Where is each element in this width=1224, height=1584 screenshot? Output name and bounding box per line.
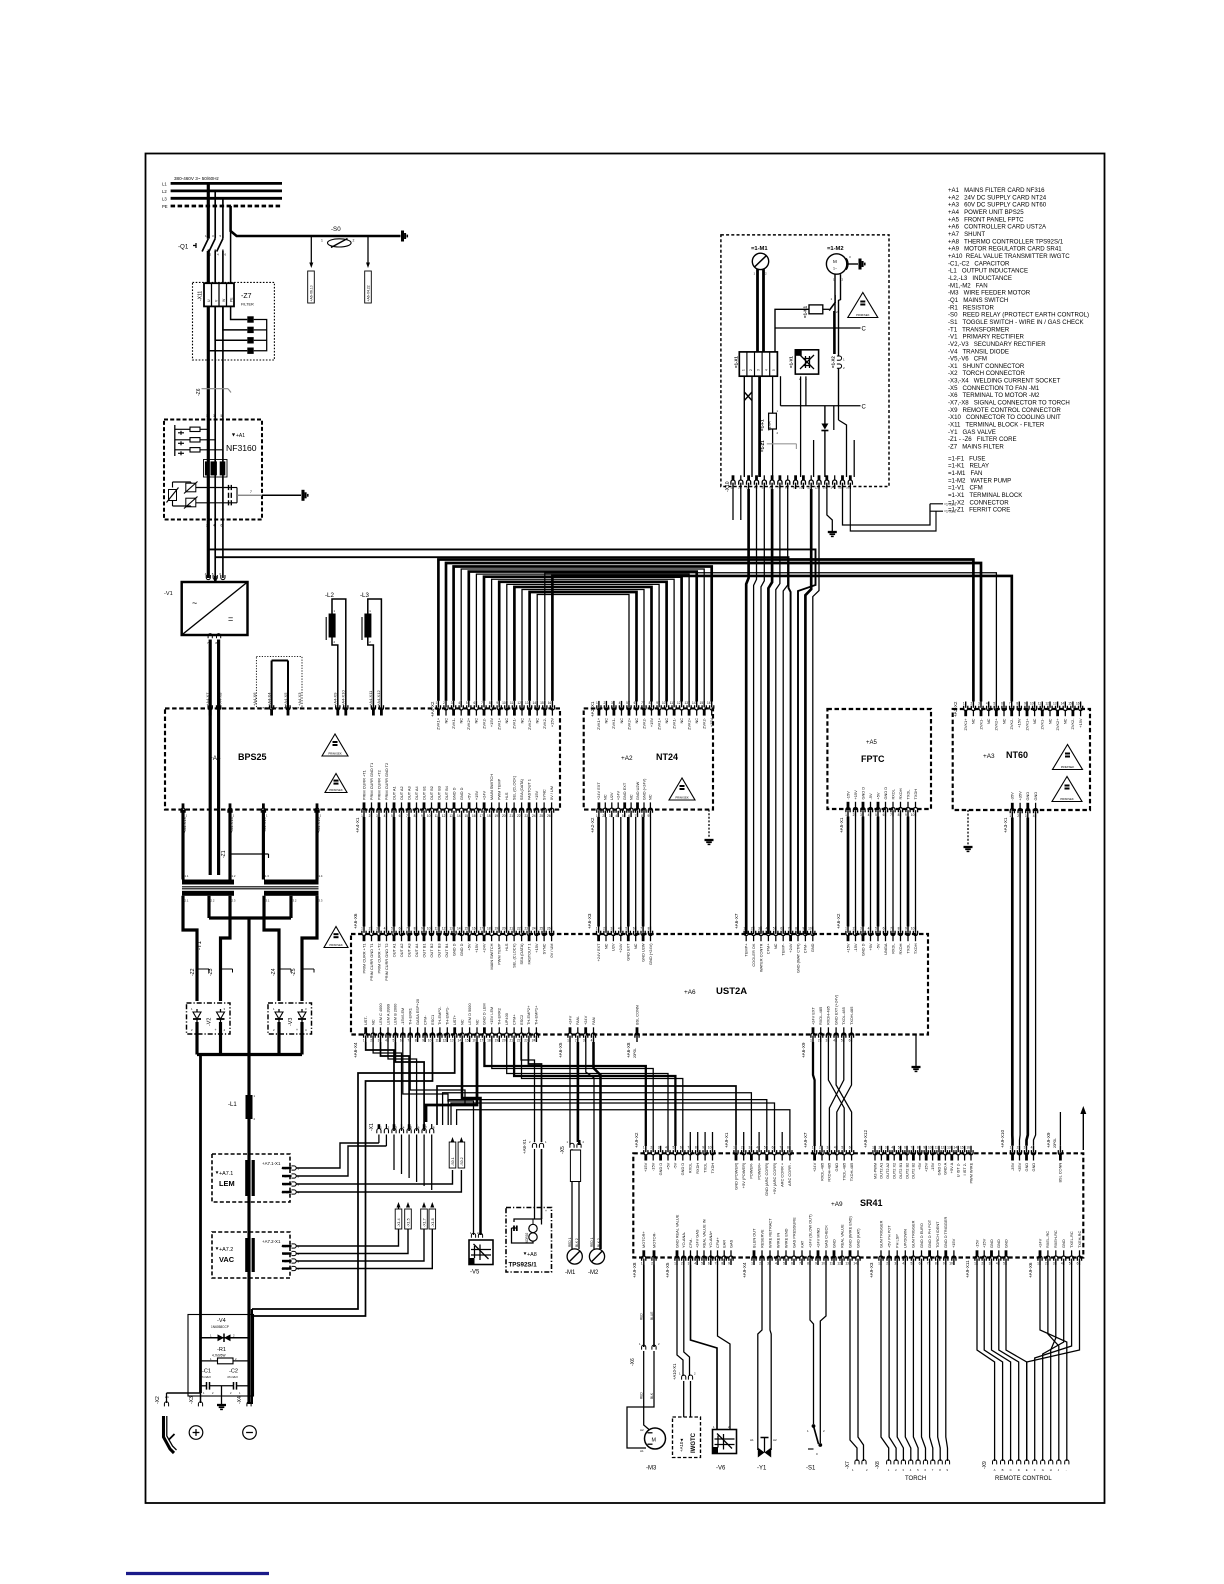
- svg-text:ZVK1+: ZVK1+: [963, 718, 968, 731]
- svg-text:+A4: +A4: [209, 755, 221, 762]
- svg-text:6: 6: [904, 1146, 906, 1150]
- svg-text:16: 16: [1076, 701, 1080, 705]
- resistor network in NF3160: [174, 425, 176, 456]
- svg-text:9: 9: [923, 1146, 925, 1150]
- svg-text:2: 2: [681, 1262, 683, 1266]
- svg-text:12: 12: [941, 1146, 945, 1150]
- wire L2 drop: [214, 191, 216, 239]
- svg-text:6: 6: [1077, 1262, 1079, 1266]
- svg-text:ESC2: ESC2: [519, 1015, 524, 1025]
- svg-text:ZVK2-: ZVK2-: [641, 717, 646, 729]
- svg-text:2: 2: [981, 1262, 983, 1266]
- svg-text:SYNC: SYNC: [541, 789, 546, 800]
- svg-text:+24V: +24V: [583, 1015, 588, 1025]
- svg-text:OUT A2: OUT A2: [399, 786, 404, 800]
- svg-text:7: 7: [481, 701, 483, 705]
- svg-text:=1-K1 RELAY: =1-K1 RELAY: [948, 463, 989, 470]
- svg-text:-S0: -S0: [331, 226, 341, 233]
- wires SR41 X5 to A10-X1: [677, 1265, 683, 1376]
- svg-text:5: 5: [875, 926, 877, 930]
- wires below X1 row: [378, 1135, 380, 1144]
- wire L3 drop: [222, 198, 224, 238]
- svg-text:20: 20: [502, 926, 506, 930]
- svg-text:+A8: +A8: [527, 1252, 537, 1258]
- svg-text:10: 10: [911, 926, 915, 930]
- svg-text:1: 1: [878, 1262, 880, 1266]
- svg-text:GND D PH POT: GND D PH POT: [927, 1219, 932, 1248]
- warning triangle transformer: [324, 927, 348, 948]
- svg-text:ZVK2+: ZVK2+: [1055, 718, 1060, 731]
- svg-text:-Z4: -Z4: [271, 968, 277, 976]
- svg-text:+A4-X4: +A4-X4: [266, 692, 271, 706]
- wires SR41 X1 up to shunt area: [437, 1086, 736, 1146]
- svg-text:+A9-X6: +A9-X6: [1028, 1262, 1033, 1278]
- svg-text:OUT B1: OUT B1: [421, 944, 426, 958]
- svg-text:7: 7: [640, 926, 642, 930]
- svg-text:PRIM CURR GND T1: PRIM CURR GND T1: [369, 763, 374, 800]
- reference label -X1.4: [395, 1209, 402, 1229]
- svg-text:+24V: +24V: [788, 943, 793, 953]
- svg-text:5: 5: [841, 1146, 843, 1150]
- svg-text:4: 4: [665, 1146, 667, 1150]
- svg-text:GND (+24V): GND (+24V): [641, 778, 646, 800]
- svg-text:5: 5: [841, 1039, 843, 1043]
- svg-text:+A6-X6.10: +A6-X6.10: [310, 285, 314, 301]
- svg-text:+35V: +35V: [1017, 791, 1022, 801]
- svg-text:-T1 TRANSFORMER: -T1 TRANSFORMER: [948, 326, 1010, 333]
- svg-text:=1-M2: =1-M2: [827, 246, 844, 252]
- svg-text:3: 3: [611, 926, 613, 930]
- svg-text:6: 6: [474, 701, 476, 705]
- svg-text:-X9 REMOTE CONTROL CONNECTOR: -X9 REMOTE CONTROL CONNECTOR: [948, 407, 1061, 414]
- svg-text:POWER+: POWER+: [756, 1162, 761, 1180]
- svg-text:+5V: +5V: [466, 793, 471, 800]
- svg-text:9: 9: [496, 701, 498, 705]
- svg-text:12: 12: [517, 701, 521, 705]
- svg-text:16: 16: [966, 1146, 970, 1150]
- svg-text:5: 5: [764, 1146, 766, 1150]
- svg-text:21: 21: [509, 1039, 513, 1043]
- svg-text:-Y1: -Y1: [757, 1466, 767, 1472]
- svg-text:+A5: +A5: [866, 740, 878, 746]
- svg-text:14: 14: [830, 486, 834, 490]
- svg-text:OUT B2: OUT B2: [429, 786, 434, 800]
- ground in cooling unit: [824, 406, 826, 426]
- svg-text:OUT A2: OUT A2: [399, 944, 404, 958]
- wire bundle BPS25-X1 to UST2A-X6: [363, 817, 366, 927]
- svg-text:0V / UM: 0V / UM: [549, 786, 554, 800]
- svg-text:+15V: +15V: [643, 1162, 648, 1172]
- svg-text:TH-EMP1-: TH-EMP1-: [445, 1006, 450, 1025]
- svg-text:4: 4: [756, 1146, 758, 1150]
- svg-text:I IST 2-: I IST 2-: [962, 1162, 967, 1175]
- svg-text:+A6-X3: +A6-X3: [587, 913, 592, 929]
- svg-text:4: 4: [1033, 814, 1035, 818]
- ground below NT24: [708, 810, 710, 838]
- svg-text:+15V: +15V: [924, 1162, 929, 1172]
- svg-text:1: 1: [596, 701, 598, 705]
- svg-text:TH-ERR2: TH-ERR2: [497, 1008, 502, 1025]
- cooler C wire 1: [775, 327, 861, 329]
- svg-text:BLUE: BLUE: [650, 1312, 654, 1320]
- svg-text:13: 13: [1053, 701, 1057, 705]
- svg-text:GND EXT: GND EXT: [622, 782, 627, 800]
- svg-text:15: 15: [960, 1146, 964, 1150]
- svg-text:19: 19: [494, 926, 498, 930]
- svg-text:HLS: HLS: [504, 943, 509, 951]
- svg-text:5: 5: [911, 1262, 913, 1266]
- svg-text:+A6-X8: +A6-X8: [626, 1042, 631, 1058]
- svg-text:GND (+24V): GND (+24V): [648, 943, 653, 965]
- svg-text:9: 9: [648, 814, 650, 818]
- svg-text:ZVK1-: ZVK1-: [671, 717, 676, 729]
- svg-text:3: 3: [1053, 1262, 1055, 1266]
- svg-text:EAR: EAR: [722, 1240, 727, 1248]
- svg-text:BLK: BLK: [650, 1392, 654, 1399]
- svg-text:RXDH-485: RXDH-485: [826, 1006, 831, 1025]
- svg-text:7: 7: [1009, 701, 1011, 705]
- svg-text:22: 22: [517, 1039, 521, 1043]
- svg-text:LEM B 2000: LEM B 2000: [393, 1003, 398, 1025]
- svg-text:-S0.1: -S0.1: [451, 1157, 455, 1166]
- svg-text:-Z7 MAINS FILTER: -Z7 MAINS FILTER: [948, 444, 1004, 451]
- wires X6 to motor M3: [643, 1351, 645, 1385]
- svg-text:PRIM/SEK: PRIM/SEK: [329, 943, 343, 947]
- svg-text:RED: RED: [640, 1392, 644, 1399]
- gas valve Y1: [758, 1448, 765, 1458]
- svg-text:9: 9: [803, 926, 805, 930]
- ferrite cores in Z7: [247, 316, 253, 322]
- svg-text:1: 1: [206, 414, 208, 418]
- svg-text:+5V: +5V: [665, 1162, 670, 1169]
- svg-text:1: 1: [733, 1146, 735, 1150]
- svg-text:15: 15: [464, 814, 468, 818]
- svg-text:8: 8: [648, 926, 650, 930]
- VAC wires to X1 labels: [296, 1229, 399, 1246]
- flow meter V5: [469, 1240, 493, 1265]
- svg-text:+A4-X2: +A4-X2: [430, 701, 435, 717]
- svg-text:14: 14: [533, 701, 537, 705]
- svg-text:+A9-X7: +A9-X7: [803, 1132, 808, 1148]
- svg-text:A2: A2: [640, 1428, 644, 1432]
- svg-text:+24V: +24V: [1037, 1238, 1042, 1248]
- svg-text:ZVK1-: ZVK1-: [978, 718, 983, 730]
- svg-text:-R1: -R1: [217, 1347, 226, 1353]
- svg-text:VAC: VAC: [219, 1255, 235, 1264]
- svg-text:2: 2: [886, 1262, 888, 1266]
- svg-text:-X5: -X5: [560, 1146, 566, 1154]
- svg-text:8: 8: [917, 1146, 919, 1150]
- svg-text:18: 18: [487, 814, 491, 818]
- svg-text:+A9-X10: +A9-X10: [1000, 1130, 1005, 1148]
- wires X4 to TPS thermostat: [521, 1042, 535, 1142]
- svg-text:NC: NC: [648, 794, 653, 800]
- svg-text:FASTOUT 1: FASTOUT 1: [526, 944, 531, 965]
- svg-text:14: 14: [692, 701, 696, 705]
- svg-text:4: 4: [868, 926, 870, 930]
- svg-text:4: 4: [902, 1262, 904, 1266]
- varistor network in NF3160: [186, 483, 196, 492]
- svg-text:OUT2 B2: OUT2 B2: [911, 1163, 916, 1179]
- relay coil wires: [775, 309, 809, 352]
- svg-text:21: 21: [509, 814, 513, 818]
- svg-text:-S1: -S1: [806, 1466, 816, 1472]
- svg-text:H: H: [1050, 1468, 1052, 1472]
- svg-text:2: 2: [604, 701, 606, 705]
- svg-text:1: 1: [812, 1146, 814, 1150]
- svg-text:GND: GND: [1025, 792, 1030, 801]
- negative rail lower: [247, 1316, 250, 1404]
- svg-text:TORCH IDENT: TORCH IDENT: [935, 1221, 940, 1248]
- svg-text:1: 1: [643, 1146, 645, 1150]
- svg-text:ZVK2+: ZVK2+: [994, 718, 999, 731]
- svg-text:+A9-X8: +A9-X8: [632, 1262, 637, 1278]
- svg-text:NC: NC: [1032, 718, 1037, 724]
- svg-text:24: 24: [532, 1039, 536, 1043]
- svg-text:-X7,-X8 SIGNAL CONNECTOR TO: -X7,-X8 SIGNAL CONNECTOR TO TORCH: [948, 400, 1070, 407]
- svg-text:12: 12: [815, 486, 819, 490]
- svg-text:+24V GAS: +24V GAS: [695, 1229, 700, 1248]
- positive rail down: [199, 1055, 202, 1394]
- svg-text:6: 6: [791, 1262, 793, 1266]
- svg-text:+A4-X5: +A4-X5: [283, 692, 288, 706]
- svg-text:10: 10: [949, 1262, 953, 1266]
- svg-text:PRIM CURR GND T2: PRIM CURR GND T2: [384, 944, 389, 981]
- svg-text:22: 22: [517, 814, 521, 818]
- svg-text:3: 3: [611, 701, 613, 705]
- svg-text:+A4-X7: +A4-X7: [205, 692, 210, 706]
- svg-text:CFM-: CFM-: [688, 1238, 693, 1248]
- svg-text:+: +: [545, 1209, 547, 1213]
- svg-text:-V2,-V3 SECUNDARY RECTIFIER: -V2,-V3 SECUNDARY RECTIFIER: [948, 341, 1046, 348]
- svg-text:7: 7: [788, 926, 790, 930]
- svg-text:-X5 CONNECTION TO FAN -M1: -X5 CONNECTION TO FAN -M1: [948, 385, 1040, 392]
- svg-text:13: 13: [684, 701, 688, 705]
- svg-text:PRIM CURR GND T1: PRIM CURR GND T1: [369, 944, 374, 981]
- svg-text:+15V: +15V: [982, 1238, 987, 1248]
- svg-text:ZVK1-: ZVK1-: [512, 717, 517, 729]
- svg-text:=1-Z1 FERRIT CORE: =1-Z1 FERRIT CORE: [948, 507, 1010, 514]
- svg-text:RXDH: RXDH: [898, 788, 903, 799]
- svg-text:4: 4: [766, 926, 768, 930]
- svg-text:10: 10: [808, 926, 812, 930]
- wires SR41 X4 to X7: [850, 1265, 857, 1461]
- wires UST2A X5 to fan M2: [586, 1042, 594, 1249]
- svg-text:+A3 60V DC SUPPLY CARD NT60: +A3 60V DC SUPPLY CARD NT60: [948, 202, 1047, 209]
- svg-text:7: 7: [715, 1262, 717, 1266]
- svg-text:RED 1: RED 1: [590, 1237, 594, 1247]
- svg-text:+A6-X5: +A6-X5: [558, 1042, 563, 1058]
- svg-text:+24V: +24V: [812, 1162, 817, 1172]
- svg-text:WIRE IN: WIRE IN: [775, 1233, 780, 1248]
- connector pins +A4-X13 to X16: [181, 808, 185, 813]
- svg-text:-S0.2: -S0.2: [460, 1157, 464, 1166]
- wire bundle SR41 X11 X6 to X9: [977, 1265, 995, 1461]
- svg-text:7: 7: [779, 1146, 781, 1150]
- svg-text:14: 14: [457, 814, 461, 818]
- svg-text:UP400: UP400: [504, 1012, 509, 1025]
- svg-text:PRIM CURR +T2: PRIM CURR +T2: [376, 944, 381, 974]
- svg-text:PE: PE: [162, 204, 168, 209]
- svg-text:REMOTE CONTROL: REMOTE CONTROL: [995, 1476, 1052, 1482]
- svg-text:-C1: -C1: [202, 1369, 211, 1375]
- svg-text:GND: GND: [996, 1239, 1001, 1248]
- svg-text:3: 3: [609, 814, 611, 818]
- svg-text:YO-ANA-: YO-ANA-: [681, 1231, 686, 1248]
- svg-text:15: 15: [540, 701, 544, 705]
- center tap join: [207, 896, 210, 918]
- svg-text:A1: A1: [640, 1449, 644, 1453]
- svg-text:WIRE RETRACT: WIRE RETRACT: [767, 1218, 772, 1248]
- svg-text:RED 1: RED 1: [568, 1237, 572, 1247]
- svg-text:+A4-X1: +A4-X1: [355, 817, 360, 833]
- svg-text:+5V A: +5V A: [949, 1162, 954, 1173]
- svg-text:6: 6: [919, 1262, 921, 1266]
- svg-text:+A3-X2: +A3-X2: [953, 701, 958, 717]
- svg-text:8: 8: [415, 1039, 417, 1043]
- svg-text:7: 7: [890, 813, 892, 817]
- svg-text:-X1.8: -X1.8: [431, 1218, 435, 1227]
- svg-text:+A9-X3: +A9-X3: [869, 1262, 874, 1278]
- svg-text:-X1.7: -X1.7: [423, 1218, 427, 1227]
- svg-text:+5V (POWER): +5V (POWER): [741, 1162, 746, 1188]
- svg-text:11: 11: [1038, 701, 1042, 705]
- svg-text:+A9: +A9: [831, 1201, 843, 1208]
- ground at S0 wire end: [401, 231, 404, 242]
- wire bundle UST2A-X9 to SR41-X7 with crossover: [813, 1042, 815, 1146]
- svg-text:GND D: GND D: [459, 943, 464, 956]
- svg-text:-15V: -15V: [853, 943, 858, 952]
- svg-text:6: 6: [772, 1146, 774, 1150]
- cooler C wire 2: [781, 405, 861, 407]
- svg-text:+15V: +15V: [1017, 718, 1022, 728]
- crossing wires in cooling unit: [744, 392, 752, 401]
- svg-text:5: 5: [625, 926, 627, 930]
- svg-text:+A4-X3: +A4-X3: [297, 692, 302, 706]
- svg-text:+5V (ARC CORR): +5V (ARC CORR): [772, 1162, 777, 1194]
- wire T1 2.3 to V2: [221, 896, 231, 1001]
- svg-text:NC: NC: [1047, 718, 1052, 724]
- svg-text:=1-M1: =1-M1: [751, 246, 768, 252]
- svg-text:18: 18: [487, 1039, 491, 1043]
- svg-text:OUT B4: OUT B4: [444, 785, 449, 800]
- svg-text:12: 12: [442, 814, 446, 818]
- svg-text:3: 3: [758, 926, 760, 930]
- svg-text:RXDL-485: RXDL-485: [819, 1163, 824, 1181]
- svg-text:ESC1: ESC1: [430, 1015, 435, 1025]
- svg-text:-C2: -C2: [229, 1369, 238, 1375]
- svg-text:380-460V 3~ 50/60Hz: 380-460V 3~ 50/60Hz: [174, 176, 220, 181]
- svg-text:FASTOUT 1: FASTOUT 1: [526, 779, 531, 800]
- svg-text:13: 13: [845, 1262, 849, 1266]
- svg-text:-L1 OUTPUT INDUCTANCE: -L1 OUTPUT INDUCTANCE: [948, 268, 1028, 275]
- svg-text:5: 5: [393, 1039, 395, 1043]
- svg-text:-X8: -X8: [875, 1461, 881, 1469]
- svg-text:G: G: [1042, 1468, 1044, 1472]
- svg-text:+24V MIND: +24V MIND: [815, 1228, 820, 1248]
- svg-text:NC: NC: [460, 1019, 465, 1025]
- svg-text:ZVK2+: ZVK2+: [686, 717, 691, 730]
- svg-text:PWM WIRE: PWM WIRE: [968, 1162, 973, 1183]
- svg-text:-V5: -V5: [470, 1270, 480, 1276]
- svg-text:2: 2: [1045, 1262, 1047, 1266]
- svg-text:TXDH: TXDH: [913, 789, 918, 800]
- svg-text:=1-X2 CONNECTOR: =1-X2 CONNECTOR: [948, 499, 1009, 506]
- svg-text:5: 5: [773, 926, 775, 930]
- svg-text:3: 3: [978, 701, 980, 705]
- svg-text:OUT B3: OUT B3: [436, 944, 441, 958]
- svg-text:23: 23: [524, 814, 528, 818]
- svg-text:+A6-X9: +A6-X9: [801, 1042, 806, 1058]
- svg-text:RXEH-RC: RXEH-RC: [1053, 1230, 1058, 1248]
- warning triangle NT60 2: [1052, 777, 1082, 802]
- svg-text:+5V: +5V: [875, 792, 880, 799]
- svg-text:14: 14: [457, 926, 461, 930]
- svg-text:2: 2: [353, 239, 355, 243]
- svg-text:10: 10: [427, 814, 431, 818]
- svg-text:OUT B1: OUT B1: [421, 786, 426, 800]
- wire PE down to X11: [230, 206, 232, 283]
- ground stub below X10: [827, 489, 832, 531]
- footer rule line: [126, 1572, 269, 1575]
- reference label -S0.1: [449, 1142, 456, 1168]
- thick wire X4 pin16 jog: [426, 1042, 477, 1122]
- wire V to ferrite: [215, 306, 247, 340]
- svg-text:+15V: +15V: [474, 943, 479, 953]
- svg-text:-S1 TOGGLE SWITCH - WIRE IN: -S1 TOGGLE SWITCH - WIRE IN / GAS CHECK: [948, 319, 1084, 326]
- svg-text:6: 6: [634, 701, 636, 705]
- svg-text:PRIM/SEK: PRIM/SEK: [1061, 765, 1075, 769]
- svg-text:+A6 CONTROLLER CARD UST2A: +A6 CONTROLLER CARD UST2A: [948, 224, 1047, 231]
- mains bus wire 1: [208, 549, 815, 934]
- svg-text:3.3: 3.3: [319, 899, 323, 903]
- VAC pins: [292, 1244, 297, 1248]
- svg-text:OUT A1: OUT A1: [391, 944, 396, 958]
- svg-text:19: 19: [495, 1039, 499, 1043]
- svg-text:+A9-X5: +A9-X5: [665, 1262, 670, 1278]
- svg-text:1: 1: [974, 1262, 976, 1266]
- svg-text:25: 25: [539, 926, 543, 930]
- wire X4 pin10 long left: [252, 1042, 433, 1316]
- svg-text:-Z3: -Z3: [208, 968, 214, 976]
- svg-text:-X1.5: -X1.5: [407, 1218, 411, 1227]
- svg-text:BLK 2: BLK 2: [575, 1238, 579, 1247]
- svg-text:PWM TEMP: PWM TEMP: [496, 778, 501, 800]
- mains filter card A1 NF3160 box: [164, 420, 262, 520]
- wire bundle X10 to UST2A X7: [746, 489, 748, 934]
- svg-text:4: 4: [764, 369, 768, 371]
- svg-text:+A8 THERMO CONTROLLER TPS92S: +A8 THERMO CONTROLLER TPS92S/1: [948, 238, 1064, 245]
- svg-text:GND U2W: GND U2W: [635, 781, 640, 800]
- svg-text:OUT2 B1: OUT2 B1: [898, 1163, 903, 1179]
- svg-text:NC: NC: [474, 1019, 479, 1025]
- svg-text:TXDL: TXDL: [905, 943, 910, 954]
- svg-text:OUT2 A2: OUT2 A2: [885, 1163, 890, 1179]
- svg-text:3: 3: [688, 1262, 690, 1266]
- svg-text:4: 4: [619, 701, 621, 705]
- svg-text:2: 2: [751, 926, 753, 930]
- svg-text:16: 16: [548, 701, 552, 705]
- svg-text:15: 15: [465, 1039, 469, 1043]
- svg-text:+15V: +15V: [534, 791, 539, 801]
- svg-text:+A9-X4: +A9-X4: [742, 1262, 747, 1278]
- svg-text:1: 1: [361, 926, 363, 930]
- svg-text:+A10: +A10: [679, 1441, 684, 1452]
- svg-text:WIRE END: WIRE END: [783, 1228, 788, 1248]
- svg-text:A: A: [994, 1468, 996, 1472]
- svg-text:7: 7: [911, 1146, 913, 1150]
- wire X1 cell2 down to fuse: [772, 376, 774, 405]
